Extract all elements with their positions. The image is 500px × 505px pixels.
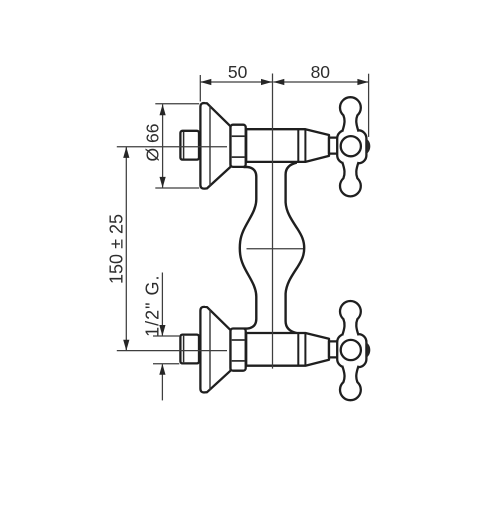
dim 80 right arrow	[357, 79, 368, 85]
svg-text:1/2" G.: 1/2" G.	[143, 274, 163, 336]
nipple inner edge line	[183, 132, 185, 159]
svg-text:50: 50	[228, 62, 248, 82]
hex facet line upper	[232, 135, 245, 137]
dimension 80: extension line right	[368, 74, 370, 137]
connecting body left edge (vase profile)	[240, 167, 257, 329]
bell rim contour line	[209, 106, 211, 187]
dim 150±25 line	[125, 147, 127, 351]
bottom valve assembly	[180, 301, 370, 400]
svg-text:Ø 66: Ø 66	[143, 124, 163, 162]
dim 150±25 top arrow	[123, 147, 129, 158]
dim Ø66 bottom arrow	[160, 177, 166, 188]
handle hub circle	[341, 136, 361, 156]
top valve assembly	[180, 97, 370, 196]
bottom valve centerline	[117, 350, 227, 352]
dimension 50 line	[200, 81, 272, 83]
dimension 50: extension line left	[199, 75, 201, 102]
dim Ø66 line	[162, 104, 164, 188]
top valve centerline	[117, 146, 227, 148]
middle body centerline	[247, 248, 304, 250]
handle front lobe cap	[366, 138, 371, 155]
dim 80 left arrow	[273, 79, 284, 85]
vertical centerline	[272, 74, 274, 369]
handle hub	[337, 130, 366, 163]
wall nipple (threaded pipe end)	[180, 131, 199, 160]
dim 150±25 bottom arrow	[123, 340, 129, 351]
dim Ø66: extension line top	[155, 103, 199, 105]
nipple top extension line	[153, 335, 179, 337]
bonnet step line 2	[304, 129, 306, 162]
handle bottom lobe	[340, 160, 361, 196]
handle stem	[329, 138, 338, 154]
label 1/2" G. lower arrow	[159, 364, 165, 375]
dimension 80 line	[273, 81, 368, 83]
connecting body right edge (vase profile)	[286, 163, 305, 334]
svg-text:80: 80	[311, 62, 331, 82]
svg-text:150 ± 25: 150 ± 25	[106, 214, 126, 284]
handle top lobe	[340, 97, 361, 133]
label 1/2" G. leader upper	[161, 273, 163, 336]
dim Ø66: extension line bottom	[155, 187, 199, 189]
hex nut	[231, 125, 246, 167]
label 1/2" G. leader lower	[161, 364, 163, 400]
nipple bottom extension line	[153, 363, 179, 365]
label 1/2" G. upper arrow	[159, 325, 165, 336]
dim 50 left arrow	[200, 79, 211, 85]
hex facet line lower	[232, 156, 245, 158]
valve body with bonnet cone	[246, 129, 329, 162]
dim Ø66 top arrow	[160, 104, 166, 115]
escutcheon bell	[200, 103, 230, 189]
dim 50 right arrow	[261, 79, 272, 85]
bonnet step line 1	[297, 129, 299, 162]
